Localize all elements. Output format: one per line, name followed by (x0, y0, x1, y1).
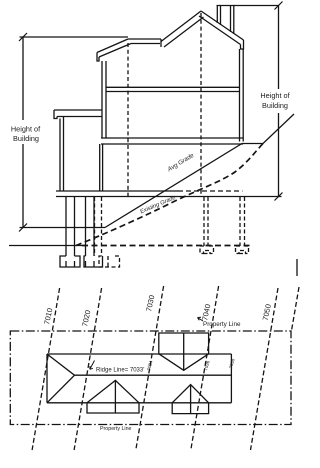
svg-text:7010: 7010 (42, 307, 54, 325)
property line rectangle (10, 331, 291, 425)
wall: upper left wall of main building (102, 61, 106, 138)
hidden post: left dashed pier (95, 197, 102, 256)
contour line 7050 (251, 288, 279, 450)
svg-text:Height of: Height of (11, 125, 41, 134)
roof plan: bottom wing 1 valleys and ridge (87, 380, 139, 413)
hidden: thick dashed ground line under footings (82, 245, 250, 247)
wire: right dimension vertical (278, 6, 280, 197)
hidden: dashed centerline left x=128 (127, 43, 129, 196)
roof left lower (flat+slope) top line (128, 38, 161, 40)
contour line far right (292, 287, 299, 330)
footing F1 (60, 256, 80, 267)
footing F2 (84, 256, 103, 267)
svg-text:7034: 7034 (146, 360, 154, 372)
roof left eave edge (97, 53, 99, 62)
contour line 7010 (32, 288, 60, 450)
chimney left wall (217, 6, 220, 26)
roof plan: ridge line (75, 374, 232, 376)
deck: annex deck top (54, 110, 102, 117)
upper roof right plane bottom line (199, 16, 241, 45)
roof left lower bottom line (131, 43, 160, 45)
post: left post 2 (86, 197, 95, 256)
roof step connector (160, 39, 162, 47)
roof plan: top wing (159, 333, 209, 354)
floor: main slab double line (101, 138, 243, 144)
wire: left dim extension bottom (grade at left wall) (20, 227, 106, 229)
wire: left dimension vertical (22, 37, 24, 228)
node: left dim tick bottom (19, 224, 27, 232)
roof left slope upper line (97, 39, 128, 53)
wire: ground line far left (9, 245, 82, 247)
upper roof left plane bottom line (164, 17, 204, 47)
mark: stray vertical tick right margin (296, 259, 298, 276)
wall: annex left wall (60, 117, 64, 192)
svg-text:Ridge Line= 7033': Ridge Line= 7033' (96, 368, 144, 374)
svg-text:7030: 7030 (144, 294, 156, 312)
svg-text:Avg Grade: Avg Grade (166, 152, 196, 174)
grade: solid finished grade line (105, 114, 294, 228)
hidden footing F3 (99, 256, 120, 267)
floor: lower slab bottom line (extends to right dim) (56, 196, 282, 198)
roof left slope lower line (99, 44, 131, 58)
wire: top dimension extension right (234, 5, 279, 7)
svg-text:Building: Building (262, 101, 288, 110)
hidden post: right dashed post 2 (240, 197, 245, 246)
svg-text:7050: 7050 (261, 303, 273, 321)
roof plan: top wing valleys and ridge (159, 333, 209, 370)
node: left dim tick top (19, 33, 27, 41)
svg-text:Property Line: Property Line (100, 426, 132, 432)
floor: lower slab top line (56, 190, 178, 192)
svg-text:Height of: Height of (260, 91, 290, 100)
leader arrow for ridge label (90, 361, 95, 370)
svg-text:7020: 7020 (80, 309, 92, 327)
hidden footing F4 (200, 246, 214, 254)
svg-text:Existing Grade: Existing Grade (139, 195, 177, 216)
wall: annex right wall (below slab) (100, 144, 103, 191)
hidden post: right dashed post 1 (204, 197, 208, 246)
svg-text:7040: 7040 (200, 303, 212, 321)
roof plan: bottom wing 2 (172, 403, 208, 414)
leader arrow for property line label (198, 317, 204, 321)
roof plan: bottom wing 1 (87, 403, 139, 413)
floor: middle floor double line (106, 87, 240, 91)
hidden: dashed centerline ridge x=201 (200, 13, 202, 196)
contour line 7020 (74, 288, 102, 450)
svg-text:7038: 7038 (228, 358, 236, 370)
roof plan: main roof outline (47, 354, 231, 403)
node: right dim tick top (275, 2, 283, 10)
roof plan: left hip lines (47, 354, 75, 403)
svg-text:Building: Building (13, 134, 39, 143)
hidden: lower slab dashed continuation (178, 190, 243, 192)
upper roof left plane top line (161, 11, 201, 42)
roof right eave edge (241, 40, 244, 49)
deck nose step (54, 110, 57, 119)
contour line 7040 (191, 286, 219, 450)
hidden footing F5 (236, 246, 249, 254)
text labels (11, 91, 291, 143)
upper roof right plane top line (201, 11, 244, 40)
svg-text:7036: 7036 (203, 360, 211, 372)
wall: right wall of building (240, 49, 244, 142)
wire: left dimension extension top (20, 36, 129, 38)
grade: dashed existing grade curve (76, 144, 263, 246)
chimney right wall (231, 6, 234, 35)
node: right dim tick bottom (275, 193, 283, 201)
chimney cap (217, 5, 235, 7)
contour line 7030 (136, 286, 164, 450)
roof plan: bottom wing 2 valleys and ridge (172, 385, 208, 414)
post: left post 1 (66, 197, 75, 256)
